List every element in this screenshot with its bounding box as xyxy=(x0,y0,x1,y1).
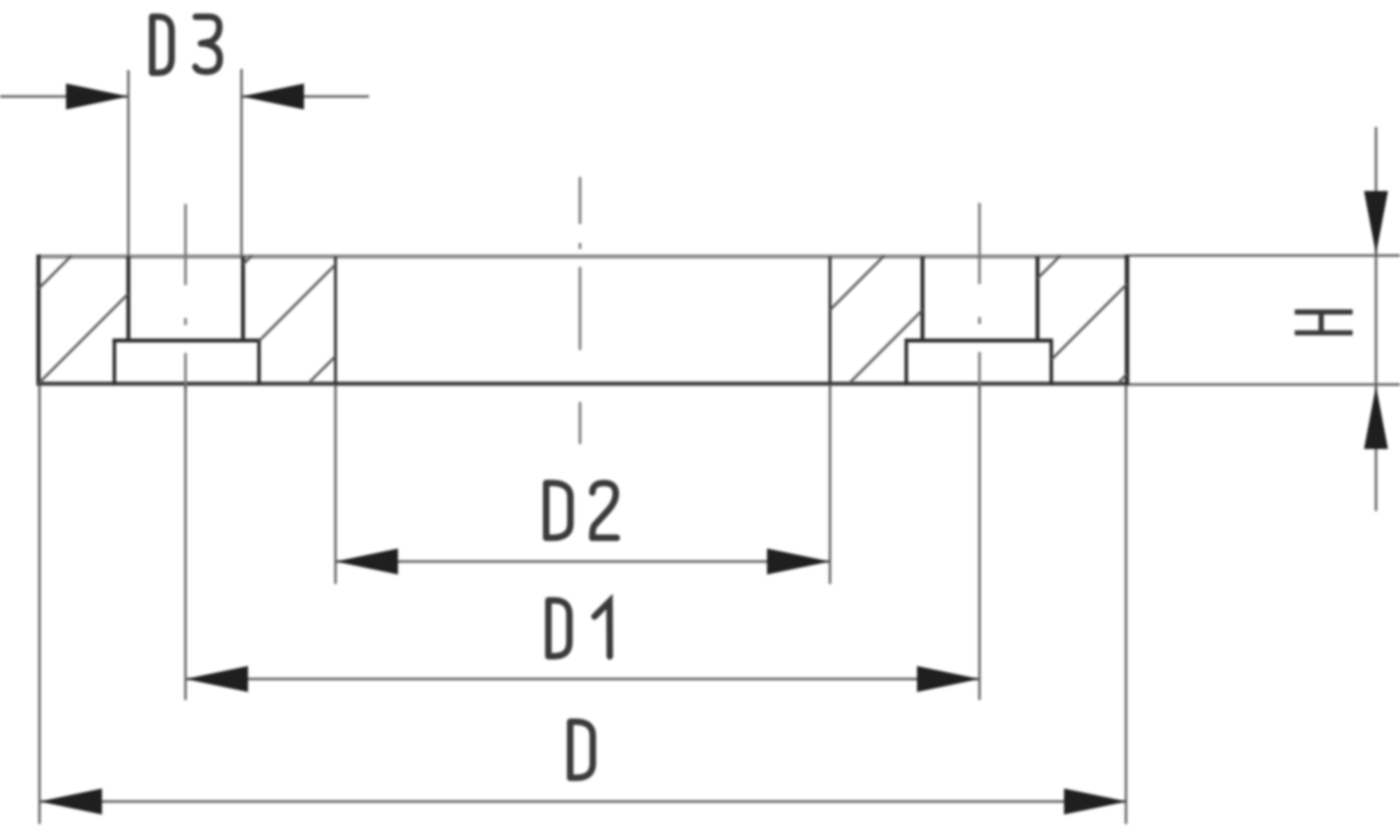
hatch line left section 1 xyxy=(39,256,72,289)
left counterbore right wall xyxy=(257,341,261,386)
extension line D2 left xyxy=(334,385,336,584)
arrowhead D3 left (points right) xyxy=(66,84,128,110)
extension line D3 left xyxy=(127,70,129,256)
arrowhead D1 left (points left) xyxy=(186,666,249,692)
hatch line right section 4 xyxy=(1051,284,1127,360)
dimension line D1 xyxy=(186,678,980,680)
flange bottom edge xyxy=(37,382,1130,386)
right hole centerline (dash-dot) xyxy=(978,203,981,389)
extension line H top xyxy=(1129,254,1400,256)
label D2 digit 2 xyxy=(592,483,617,538)
arrowhead D3 right (points left) xyxy=(242,84,305,110)
label H (rotated 90deg) xyxy=(1295,312,1353,333)
extension line D right xyxy=(1125,385,1127,824)
flange right edge xyxy=(1125,255,1130,386)
left hole narrow bore left wall xyxy=(126,257,130,342)
hatch line left section 4 xyxy=(259,265,336,342)
arrowhead H top (points down) xyxy=(1364,191,1388,254)
hatch line left section 2 xyxy=(39,294,129,384)
right counterbore left wall xyxy=(904,341,908,386)
arrowhead D right (points right) xyxy=(1064,789,1127,815)
label D1 letter D xyxy=(548,600,569,656)
right hole counterbore step xyxy=(905,339,1054,343)
label D3 digit 3 xyxy=(195,17,219,72)
label D2 letter D xyxy=(546,483,570,538)
arrowhead D left (points left) xyxy=(40,789,103,815)
extension line D3 right xyxy=(240,69,242,256)
arrowhead H bottom (points up) xyxy=(1364,386,1388,449)
label D letter D xyxy=(570,722,593,778)
extension line H bottom xyxy=(1129,383,1400,385)
dimension line D3 left tail xyxy=(0,95,128,97)
right counterbore right wall xyxy=(1050,341,1054,386)
left hole narrow bore right wall xyxy=(241,257,245,342)
hatch line right section 3 xyxy=(1038,256,1061,279)
extension line D2 right xyxy=(829,385,831,584)
hatch line right section 1 xyxy=(830,256,885,311)
bore left boundary (D2 inner edge left) xyxy=(334,257,337,384)
arrowhead D2 right (points right) xyxy=(767,549,830,575)
left hole counterbore step xyxy=(113,339,262,343)
left counterbore left wall xyxy=(113,341,117,386)
flange top edge xyxy=(39,255,1128,259)
label D3 letter D xyxy=(152,17,171,73)
hatch line right section 5 xyxy=(1118,374,1128,384)
bore right boundary (D2 inner edge right) xyxy=(829,257,832,384)
left hole centerline (dash-dot) xyxy=(184,204,187,390)
dimension line D2 xyxy=(336,560,831,562)
hatch line left section 5 xyxy=(308,356,335,383)
main centerline (flange axis, dash-dot) xyxy=(579,177,582,444)
hatch line left section 3 xyxy=(243,256,252,265)
flange left edge xyxy=(36,255,40,386)
extension line D left xyxy=(38,385,40,824)
dimension line D xyxy=(40,800,1128,802)
extension line D1 right xyxy=(978,385,980,700)
extension line D1 left xyxy=(184,385,186,700)
dimension line H (vertical) xyxy=(1375,127,1377,511)
label D1 digit 1 xyxy=(595,602,610,657)
dimension line D3 right tail xyxy=(242,95,370,97)
arrowhead D2 left (points left) xyxy=(336,549,399,575)
hatch line right section 2 xyxy=(849,310,923,384)
arrowhead D1 right (points right) xyxy=(917,666,980,692)
right hole narrow bore left wall xyxy=(921,257,925,342)
right hole narrow bore right wall xyxy=(1036,257,1040,342)
